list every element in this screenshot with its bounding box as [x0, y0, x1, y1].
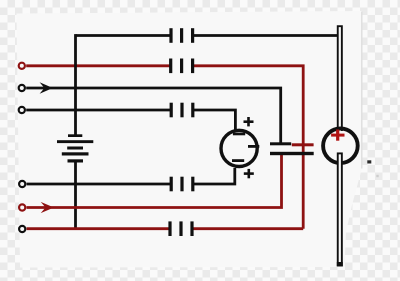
- wire: battery bottom lead down to red bottom bus: [74, 162, 77, 229]
- terminal T6 (black ring, red wire): [19, 226, 25, 232]
- wire: vertical riser x=75.5 from top bus to battery: [74, 34, 77, 135]
- wire: red line from T1 to right corner then down (net V2): [26, 64, 303, 228]
- arrow on T2 wire: [40, 82, 53, 93]
- minus sign (top, inside U1): [233, 133, 245, 136]
- terminal T1 (red, top input): [19, 63, 25, 69]
- capacitor C3 (three-bar): [170, 103, 195, 118]
- terminal T3 (black): [19, 107, 25, 113]
- capacitor C5 (parallel horizontal plates): [270, 142, 314, 155]
- source U1 (circle with minus charges): [221, 130, 257, 166]
- wire: black line from T2 right, down at x=281 to capacitor C5 top plate: [26, 87, 281, 143]
- capacitor C1 (three-bar, on top bus): [169, 28, 194, 43]
- source U2 (circle with red plus): [323, 129, 358, 164]
- red plus inside U2: [331, 130, 344, 141]
- target plate P1 (lower segment): [338, 153, 342, 265]
- capacitor C6 (three-bar): [170, 177, 195, 192]
- battery BT1: [57, 134, 93, 162]
- minus sign (bottom, inside U1): [232, 159, 244, 162]
- target plate P1 (upper segment): [338, 26, 342, 131]
- canvas edge shading: [361, 12, 363, 169]
- wire: black top bus from vertical riser to target plate: [76, 34, 338, 37]
- wire: black line from T4 through C6 up to bottom of source U1: [27, 168, 235, 185]
- terminal T2 (black, with arrow): [19, 85, 25, 91]
- speck artifact: [367, 160, 371, 163]
- plus polarity mark above U1: [244, 117, 254, 126]
- wire: red bottom bus from T6 through C4 to corner below C5: [27, 227, 304, 230]
- terminal T5 (red, with red arrow): [19, 204, 25, 210]
- wire: red line from T5 right then up to capacitor C5 bottom plate: [27, 154, 282, 209]
- plus polarity mark below U1: [244, 169, 254, 178]
- capacitor C2 (three-bar, on red wire): [169, 59, 194, 74]
- target plate P1 bottom end cap: [337, 262, 343, 266]
- terminal T4 (black): [19, 181, 25, 187]
- arrow on T5 wire (red): [41, 202, 54, 213]
- minus sign (right, inside U1): [248, 145, 259, 148]
- capacitor C4 (three-bar, black bars on red wire): [168, 221, 193, 236]
- wire: black line from T3 through C3 to top of source U1: [26, 109, 235, 130]
